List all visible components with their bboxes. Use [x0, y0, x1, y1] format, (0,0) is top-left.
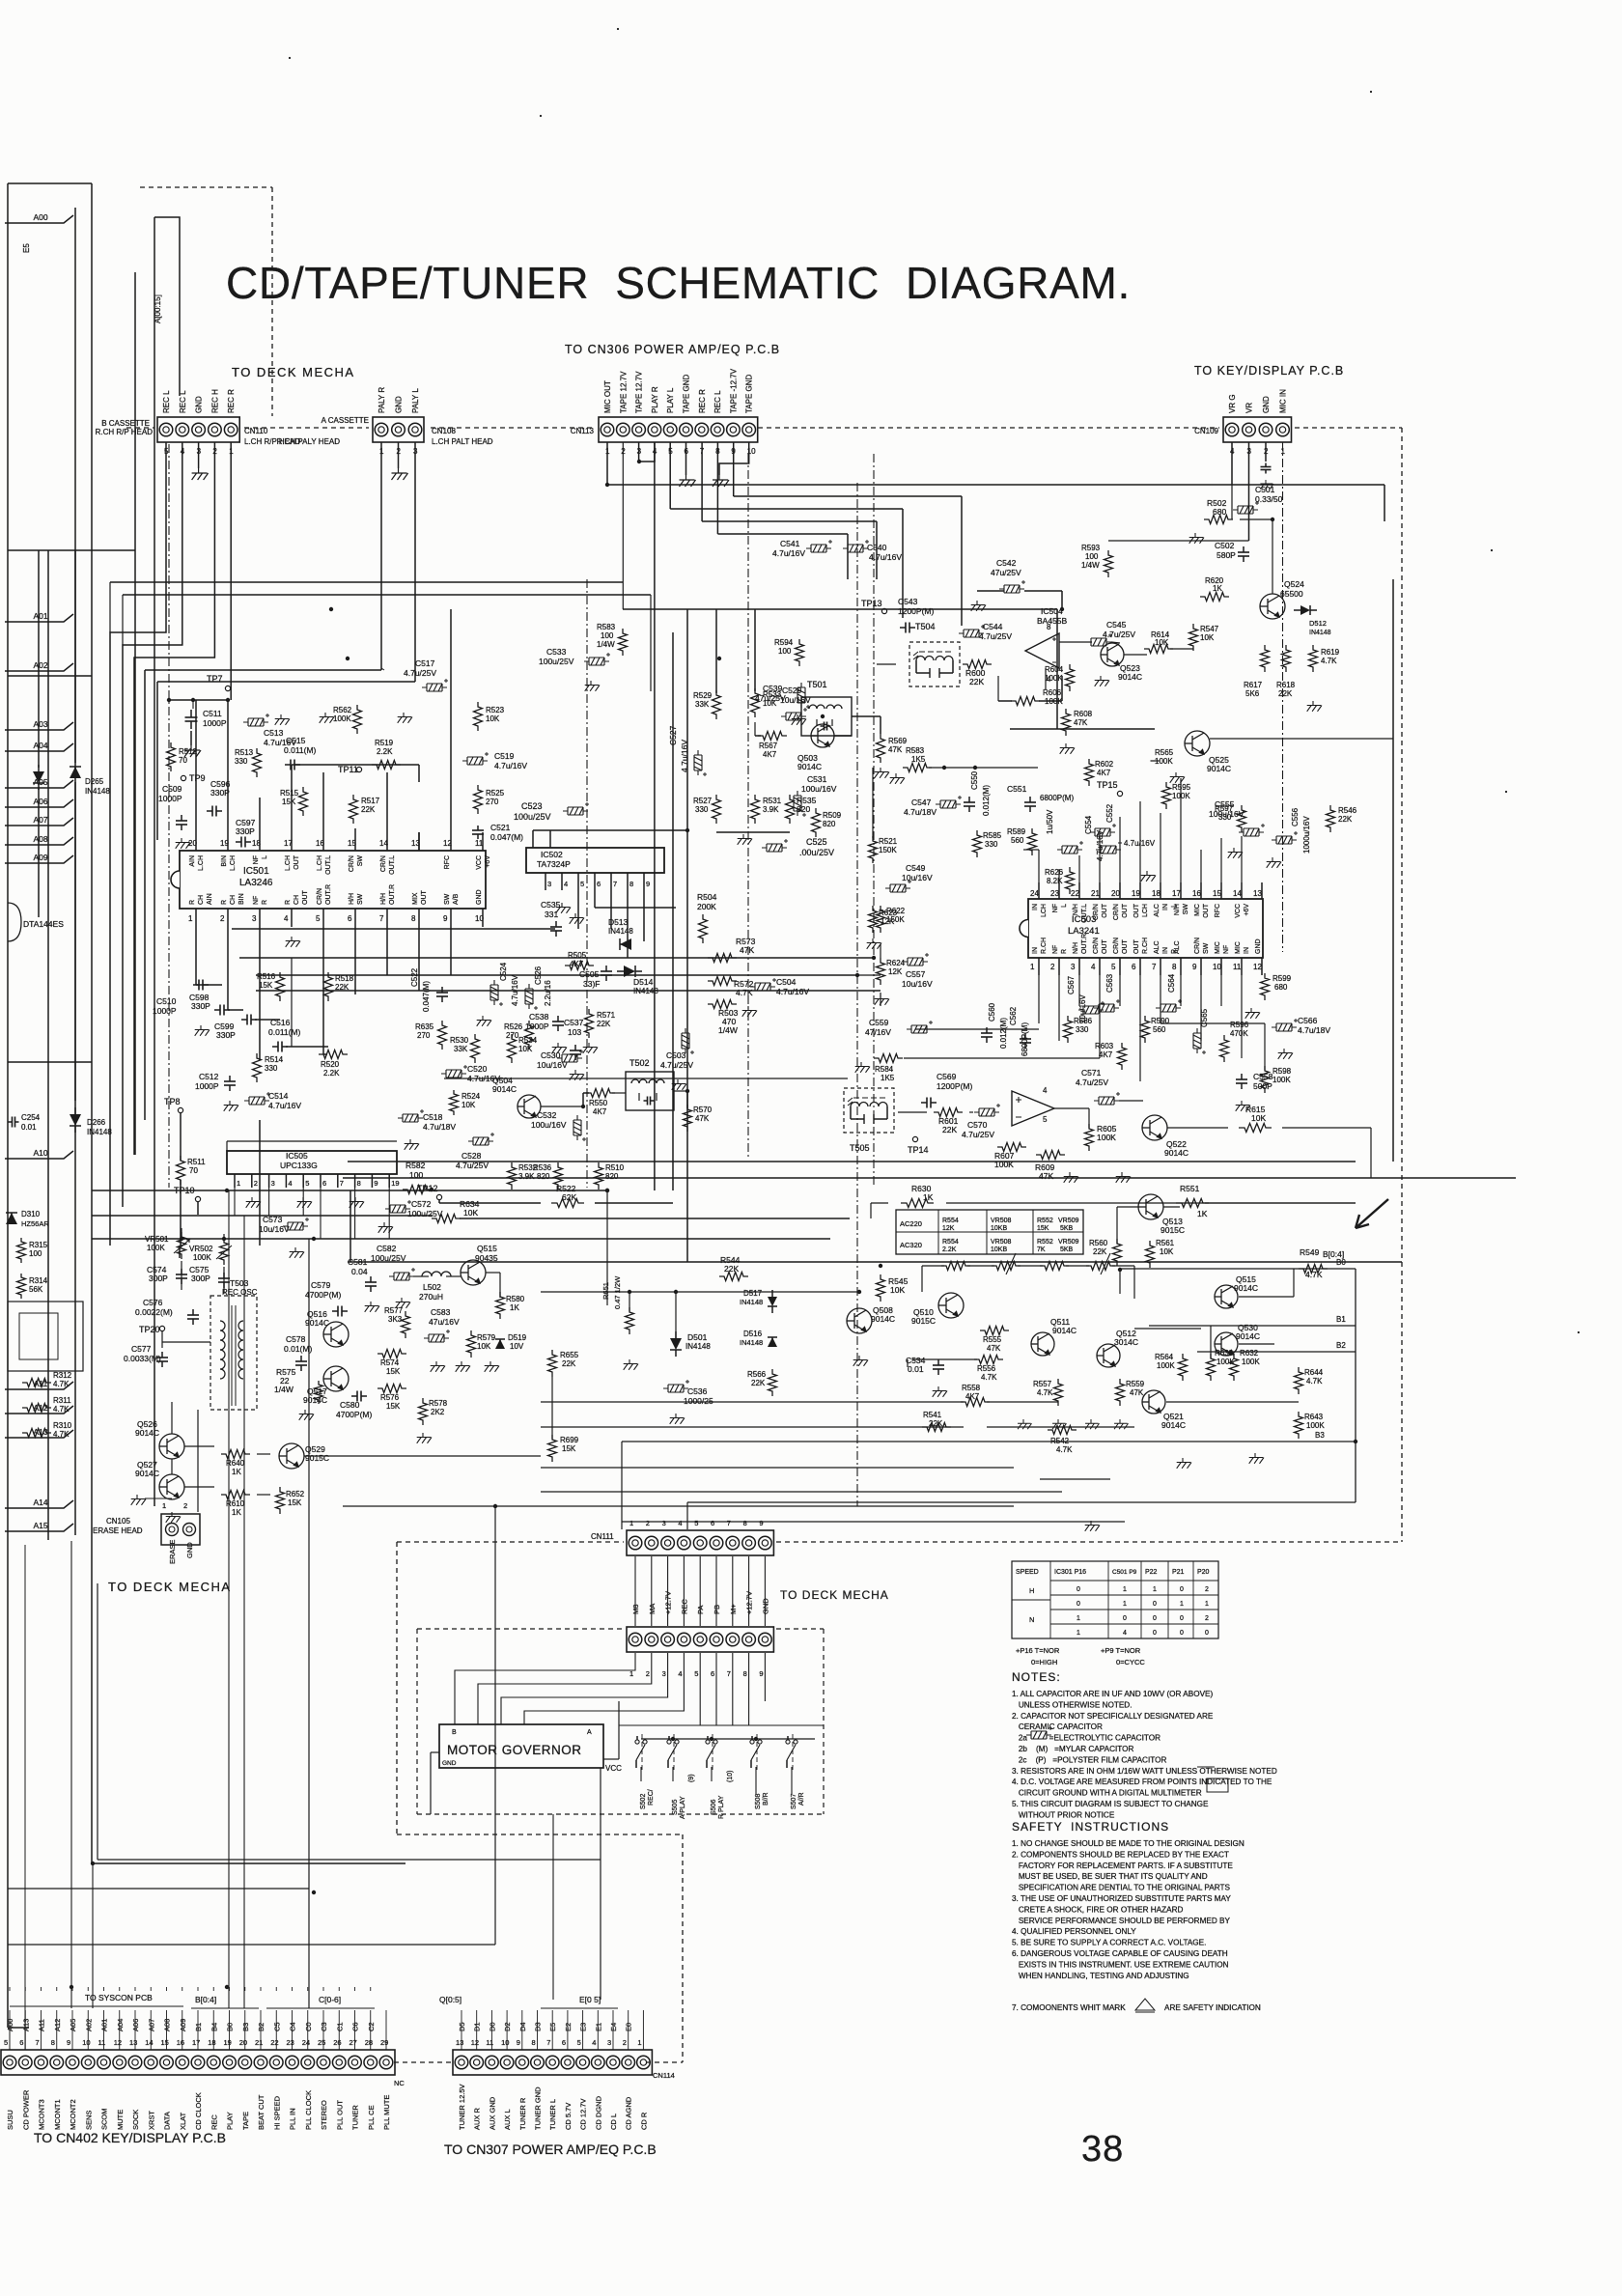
- svg-text:LCH: LCH: [1041, 904, 1048, 917]
- svg-text:27: 27: [350, 2038, 357, 2047]
- svg-text:C524: C524: [499, 962, 508, 981]
- svg-text:4K7: 4K7: [1097, 769, 1111, 777]
- svg-text:0: 0: [1153, 1630, 1157, 1637]
- svg-text:2: 2: [1205, 1586, 1209, 1593]
- ground R623: [867, 938, 881, 949]
- svg-text:6: 6: [711, 1669, 714, 1678]
- capacitor C550 0.012(M): [968, 797, 970, 802]
- svg-text:R314: R314: [29, 1276, 48, 1285]
- svg-text:SW: SW: [444, 893, 451, 905]
- svg-text:R552: R552: [1037, 1218, 1053, 1224]
- svg-text:9014C: 9014C: [492, 1084, 517, 1094]
- transistor Q530 9014C: [1215, 1332, 1238, 1356]
- svg-text:VR501: VR501: [145, 1235, 169, 1244]
- connector CN112: [627, 1627, 773, 1652]
- transistor Q503 9014C: [811, 724, 834, 747]
- svg-text:100K: 100K: [1155, 757, 1173, 766]
- svg-text:0.01: 0.01: [908, 1364, 924, 1374]
- wires into bottom connectors from above: [9, 2010, 11, 2050]
- svg-text:1. NO CHANGE SHOULD BE MADE TO: 1. NO CHANGE SHOULD BE MADE TO THE ORIGI…: [1012, 1839, 1244, 1848]
- svg-text:8: 8: [51, 2038, 55, 2047]
- ground R584: [855, 1062, 870, 1073]
- svg-text:CN114: CN114: [653, 2071, 675, 2080]
- svg-text:C5: C5: [272, 2022, 281, 2031]
- IC503 LA3241: [1028, 899, 1263, 958]
- svg-text:VCC: VCC: [476, 855, 483, 870]
- resistor R599 680: [1261, 973, 1270, 1000]
- ground C518: [405, 1139, 419, 1150]
- ground C558: [1236, 1101, 1250, 1111]
- svg-text:19: 19: [224, 2038, 232, 2047]
- rail above switches: [641, 1738, 815, 1740]
- svg-text:9: 9: [759, 1519, 763, 1527]
- IC503 pin 15: [1220, 882, 1222, 899]
- svg-text:R529: R529: [693, 691, 713, 700]
- transistor Q527 9014C: [159, 1474, 184, 1499]
- svg-text:1K: 1K: [510, 1303, 519, 1312]
- svg-text:L.CH: L.CH: [198, 855, 205, 871]
- svg-text:S507: S507: [791, 1794, 797, 1809]
- resistor R578 2K2: [419, 1398, 428, 1425]
- resistor R564 100K: [1179, 1354, 1188, 1381]
- svg-text:4.7u/16V: 4.7u/16V: [268, 1101, 301, 1110]
- capacitor C538 1000P: [557, 1016, 559, 1022]
- svg-text:5KB: 5KB: [1060, 1246, 1074, 1253]
- svg-text:OUT: OUT: [1133, 903, 1140, 918]
- IC501 pin 16: [322, 832, 324, 851]
- resistor R604 100K: [1066, 664, 1075, 691]
- resistor R566 22K: [769, 1369, 777, 1396]
- svg-text:16: 16: [1192, 889, 1201, 898]
- svg-text:47K: 47K: [740, 945, 754, 955]
- ground C537: [570, 1070, 584, 1080]
- svg-text:A10: A10: [33, 1148, 47, 1158]
- transformer T504: [909, 642, 960, 686]
- node A03: [5, 722, 73, 730]
- node A10: [5, 1151, 73, 1159]
- svg-text:2: 2: [623, 2038, 627, 2047]
- rail y603 tape supply: [110, 581, 623, 583]
- IC501 pin 14: [386, 832, 388, 851]
- resistor R567 4K7: [758, 732, 787, 741]
- svg-text:C517: C517: [415, 658, 435, 668]
- IC501 pin 13: [418, 832, 420, 851]
- left block frame verticals: [144, 670, 146, 1120]
- svg-text:IN: IN: [1032, 947, 1039, 954]
- svg-text:9: 9: [67, 2038, 70, 2047]
- svg-text:D516: D516: [743, 1330, 763, 1338]
- svg-text:1: 1: [237, 1179, 240, 1188]
- svg-text:15K: 15K: [386, 1367, 401, 1376]
- wire T501 right: [852, 715, 881, 717]
- svg-text:8: 8: [532, 2038, 536, 2047]
- rail y694: [145, 669, 381, 671]
- ground C573: [290, 1247, 304, 1258]
- electrolytic C544 4.7u/25V: [959, 625, 985, 637]
- svg-text:3: 3: [607, 2038, 611, 2047]
- svg-text:20: 20: [239, 2038, 247, 2047]
- left bus top corner wires: [8, 182, 92, 184]
- svg-text:D514: D514: [633, 977, 654, 987]
- resistor R562 100K: [353, 705, 362, 734]
- svg-text:22: 22: [270, 2038, 278, 2047]
- svg-text:C562: C562: [1009, 1006, 1018, 1025]
- svg-text:VR509: VR509: [1058, 1218, 1079, 1224]
- svg-text:TO CN306 POWER AMP/EQ P.C.B: TO CN306 POWER AMP/EQ P.C.B: [565, 343, 780, 356]
- svg-text:4.7u/18V: 4.7u/18V: [423, 1122, 456, 1132]
- svg-text:S506: S506: [711, 1800, 717, 1815]
- svg-text:8: 8: [629, 880, 633, 888]
- svg-text:C503: C503: [666, 1050, 686, 1060]
- svg-text:150K: 150K: [879, 846, 897, 854]
- ground TP15 rail: [1141, 871, 1156, 882]
- ground C581: [365, 1302, 379, 1312]
- IC503 pin 2: [1058, 958, 1060, 975]
- electrolytic C570 4.7u/25V: [974, 1104, 1000, 1116]
- svg-text:150K: 150K: [886, 915, 905, 924]
- svg-text:47/16V: 47/16V: [865, 1027, 891, 1037]
- wire pin14 to R525: [418, 832, 420, 851]
- resistor R542 4.7K: [1048, 1426, 1077, 1435]
- sub box left: [8, 1302, 83, 1371]
- node A08: [5, 837, 73, 845]
- svg-text:R583: R583: [597, 623, 616, 631]
- resistor R544 22K: [719, 1273, 748, 1281]
- test point TP11: [356, 767, 361, 771]
- svg-text:MOTOR GOVERNOR: MOTOR GOVERNOR: [447, 1743, 582, 1757]
- electrolytic C540 4.7u/16V: [843, 540, 869, 552]
- capacitor C556 1000u/16V: [1272, 831, 1298, 844]
- svg-text:SW: SW: [1183, 904, 1189, 915]
- svg-text:CD 5.7V: CD 5.7V: [564, 2103, 573, 2130]
- svg-text:2: 2: [1050, 963, 1055, 971]
- svg-text:PLL MUTE: PLL MUTE: [382, 2095, 391, 2130]
- resistor R534 10K: [508, 1034, 517, 1063]
- switch S506 R PLAY: [706, 1740, 710, 1744]
- resistor R514 330: [253, 1053, 262, 1082]
- svg-text:15K: 15K: [562, 1444, 576, 1453]
- svg-text:C578: C578: [286, 1334, 306, 1344]
- resistor R601 22K: [934, 1108, 963, 1117]
- ground IC503 pin12: [1245, 1008, 1260, 1019]
- diode D513 IN4148: [620, 938, 631, 950]
- svg-text:TAPE: TAPE: [241, 2112, 250, 2130]
- svg-text:15: 15: [348, 839, 356, 848]
- svg-text:18: 18: [208, 2038, 215, 2047]
- svg-text:11: 11: [1233, 963, 1242, 971]
- svg-text:CD DGND: CD DGND: [594, 2095, 602, 2130]
- svg-text:R523: R523: [486, 706, 505, 714]
- wire Q525 to right edge: [1210, 738, 1393, 740]
- svg-text:R602: R602: [1095, 760, 1114, 769]
- ground C512: [224, 1101, 238, 1111]
- svg-text:GND: GND: [1262, 396, 1271, 413]
- svg-text:4: 4: [678, 1669, 682, 1678]
- svg-text:4.7u/16V: 4.7u/16V: [1124, 839, 1156, 848]
- svg-text:33K: 33K: [695, 700, 710, 709]
- svg-text:2K2: 2K2: [431, 1408, 445, 1416]
- resistor R520 2.2K: [319, 1050, 348, 1059]
- resistor R311 4.7K: [22, 1404, 51, 1413]
- test point TP12: [436, 1194, 441, 1199]
- svg-text:R505: R505: [568, 951, 587, 960]
- resistor R593 100 1/4W: [1105, 550, 1113, 577]
- node A11: [5, 1382, 73, 1389]
- svg-text:R699: R699: [560, 1436, 579, 1444]
- svg-text:C254: C254: [21, 1113, 41, 1122]
- wire B3: [622, 1441, 1356, 1442]
- svg-text:6800P(M): 6800P(M): [1040, 794, 1074, 802]
- svg-text:4.7K: 4.7K: [981, 1373, 997, 1382]
- IC503 pin 5: [1119, 958, 1121, 975]
- svg-text:D265: D265: [85, 777, 104, 786]
- IC502 top pins: [532, 830, 534, 848]
- svg-text:IN4148: IN4148: [87, 1128, 112, 1136]
- svg-text:D3: D3: [534, 2022, 543, 2031]
- grounds opamp2: [1064, 1172, 1078, 1183]
- svg-text:.00u/25V: .00u/25V: [799, 848, 834, 857]
- svg-text:TO CN307 POWER AMP/EQ P.C.B: TO CN307 POWER AMP/EQ P.C.B: [444, 2142, 657, 2157]
- svg-text:2.2K: 2.2K: [942, 1246, 957, 1253]
- svg-text:R617: R617: [1244, 681, 1263, 689]
- capacitor C551 6800P(M): [1029, 797, 1031, 802]
- svg-text:12: 12: [443, 839, 452, 848]
- connector CN402-side 25 pins: [1, 2050, 395, 2075]
- svg-text:R PLAY: R PLAY: [718, 1795, 725, 1819]
- svg-text:Q[0:5]: Q[0:5]: [439, 1995, 461, 2004]
- svg-text:8: 8: [1047, 623, 1051, 631]
- svg-text:PLL CE: PLL CE: [367, 2105, 376, 2130]
- svg-text:CR/N: CR/N: [1194, 938, 1201, 954]
- wire opamp feedback: [997, 676, 999, 701]
- svg-text:23: 23: [1050, 889, 1059, 898]
- wires mic amp: [877, 663, 896, 665]
- ground CN113 pin10: [719, 442, 749, 475]
- diode D516 IN4148: [768, 1337, 777, 1347]
- rail y1026 long: [256, 990, 881, 992]
- svg-text:6: 6: [348, 914, 352, 923]
- zener D310 HZ56AR: [6, 1213, 17, 1224]
- wires bias rows: [907, 1359, 909, 1367]
- svg-text:C533: C533: [546, 647, 567, 657]
- svg-text:10K: 10K: [518, 1045, 533, 1053]
- svg-text:P22: P22: [1145, 1569, 1158, 1576]
- resistor R509 820: [812, 808, 821, 837]
- svg-text:4.7u/25V: 4.7u/25V: [1103, 630, 1135, 639]
- svg-text:SAFETY INSTRUCTIONS: SAFETY INSTRUCTIONS: [1012, 1820, 1169, 1834]
- svg-text:47K: 47K: [695, 1114, 710, 1123]
- svg-text:B[0:4]: B[0:4]: [195, 1995, 216, 2004]
- svg-text:D1: D1: [473, 2022, 482, 2031]
- svg-text:3. THE USE OF UNAUTHORIZED SUB: 3. THE USE OF UNAUTHORIZED SUBSTITUTE PA…: [1012, 1894, 1231, 1903]
- svg-text:0: 0: [1180, 1630, 1184, 1637]
- svg-text:OUT.L: OUT.L: [325, 855, 332, 875]
- svg-text:6800P(M): 6800P(M): [1021, 1022, 1029, 1056]
- switch S507 A/R: [786, 1740, 790, 1744]
- svg-text:TP20: TP20: [139, 1325, 160, 1334]
- svg-text:DATA: DATA: [163, 2112, 172, 2130]
- rail y616 tape supply: [123, 594, 651, 596]
- svg-text:R549: R549: [1300, 1247, 1320, 1257]
- diode D517 IN4148: [768, 1297, 777, 1306]
- svg-text:100K: 100K: [333, 714, 351, 723]
- switch S505 A PLAY: [667, 1740, 671, 1744]
- test point TP9: [181, 775, 185, 780]
- svg-text:4.7u/16V: 4.7u/16V: [494, 761, 527, 770]
- svg-text:R552: R552: [1037, 1239, 1053, 1246]
- IC505 pin wires down: [234, 1188, 236, 1216]
- svg-text:PLAY L: PLAY L: [666, 387, 675, 413]
- capacitor C565 1.1/16: [1193, 1028, 1206, 1054]
- IC501 pin 17: [291, 832, 293, 851]
- resistor R596 470K: [1220, 1035, 1229, 1062]
- svg-text:R546: R546: [1338, 806, 1357, 815]
- inductor L502 270uH: [422, 1272, 451, 1276]
- svg-text:4.7u/16V: 4.7u/16V: [680, 740, 689, 772]
- svg-text:R565: R565: [1155, 748, 1174, 757]
- svg-text:R584: R584: [875, 1065, 894, 1074]
- ground C533: [585, 681, 600, 691]
- svg-text:P21: P21: [1172, 1569, 1185, 1576]
- svg-text:LA3246: LA3246: [239, 878, 273, 888]
- ground C509: [176, 838, 190, 849]
- svg-text:A14: A14: [33, 1498, 47, 1507]
- ground under C517: [398, 713, 412, 723]
- svg-text:5: 5: [1111, 963, 1116, 971]
- IC505 top lead: [227, 1140, 397, 1142]
- svg-text:2. COMPONENTS SHOULD BE REPLAC: 2. COMPONENTS SHOULD BE REPLACED BY THE …: [1012, 1850, 1229, 1859]
- IC505 UPC133G: [227, 1151, 397, 1174]
- svg-text:3K3: 3K3: [388, 1315, 403, 1324]
- ground near C513: [275, 714, 290, 725]
- svg-text:100K: 100K: [1097, 1133, 1116, 1142]
- svg-text:A11: A11: [38, 2019, 46, 2031]
- electrolytic C545 4.7u/25V: [1086, 633, 1112, 646]
- svg-text:R: R: [221, 900, 228, 905]
- svg-text:RFC: RFC: [1215, 904, 1221, 917]
- IC505 pin 9: [371, 1174, 373, 1188]
- IC503 pin 17: [1180, 882, 1182, 899]
- svg-text:VR508: VR508: [991, 1218, 1012, 1224]
- svg-text:R596: R596: [1230, 1021, 1249, 1029]
- svg-text:TAPE -12.7V: TAPE -12.7V: [729, 368, 738, 413]
- svg-text:28: 28: [365, 2038, 373, 2047]
- resistor R600 22K: [963, 660, 992, 669]
- capacitor C548 1u/50V: [1057, 841, 1083, 854]
- svg-text:R590: R590: [1151, 1017, 1170, 1025]
- wires Q526/Q527: [184, 1445, 214, 1447]
- svg-text:C572: C572: [411, 1199, 432, 1209]
- rail y962: [232, 928, 555, 930]
- transistor Q516 9014C: [323, 1322, 349, 1347]
- svg-text:C505: C505: [579, 969, 600, 979]
- wire TP8 down: [180, 1113, 182, 1161]
- test point TP7: [225, 686, 230, 690]
- IC505 pin 7: [337, 1174, 339, 1188]
- svg-text:C566: C566: [1298, 1016, 1318, 1025]
- svg-text:2b (M) =MYLAR CAPACITOR: 2b (M) =MYLAR CAPACITOR: [1012, 1745, 1133, 1753]
- svg-text:FACTORY FOR REPLACEMENT PARTS.: FACTORY FOR REPLACEMENT PARTS. IF A SUBS…: [1012, 1862, 1233, 1870]
- svg-text:R531: R531: [763, 797, 782, 805]
- svg-text:R578: R578: [429, 1399, 448, 1408]
- svg-text:R315: R315: [29, 1241, 48, 1249]
- svg-text:CD CLOCK: CD CLOCK: [194, 2092, 203, 2130]
- svg-text:R: R: [1061, 949, 1068, 954]
- svg-text:IN: IN: [1244, 947, 1250, 954]
- wire return y1576: [622, 1521, 1125, 1523]
- svg-text:REC H: REC H: [210, 389, 219, 413]
- resistor R655 22K: [548, 1350, 557, 1377]
- bottom rails into connectors: [308, 1239, 310, 2008]
- electrolytic C524 4.7u/16V: [490, 980, 503, 1006]
- svg-text:Q524: Q524: [1284, 579, 1304, 589]
- resistors R617 R618 pair: [1261, 645, 1270, 672]
- svg-text:70: 70: [189, 1166, 198, 1175]
- svg-text:R619: R619: [1321, 648, 1340, 657]
- svg-text:T504: T504: [915, 622, 936, 631]
- IC501 pin 12: [450, 832, 452, 851]
- svg-text:4.7K: 4.7K: [1056, 1445, 1073, 1454]
- node A05: [5, 780, 73, 788]
- svg-text:6. DANGEROUS VOLTAGE CAPABLE O: 6. DANGEROUS VOLTAGE CAPABLE OF CAUSING …: [1012, 1949, 1228, 1958]
- IC503 pin 20: [1119, 882, 1121, 899]
- svg-text:AUX GND: AUX GND: [488, 2096, 496, 2130]
- svg-text:C510: C510: [156, 996, 177, 1006]
- svg-text:4: 4: [1091, 963, 1096, 971]
- svg-text:E5: E5: [22, 243, 31, 253]
- svg-text:R547: R547: [1200, 625, 1219, 633]
- resistor R608 47K: [1062, 709, 1071, 736]
- svg-text:BIN: BIN: [238, 893, 245, 905]
- svg-text:C509: C509: [162, 784, 182, 794]
- svg-text:C535: C535: [541, 900, 561, 910]
- svg-text:CD AGND: CD AGND: [625, 2096, 633, 2130]
- svg-text:AC320: AC320: [900, 1241, 922, 1249]
- svg-text:1/4W: 1/4W: [1081, 561, 1100, 570]
- IC502 pin 4: [561, 873, 563, 890]
- resistor R547 10K: [1189, 624, 1198, 651]
- svg-text:7: 7: [727, 1669, 731, 1678]
- svg-text:VCC: VCC: [605, 1764, 622, 1773]
- svg-text:3: 3: [547, 880, 551, 888]
- svg-text:270: 270: [506, 1031, 519, 1040]
- svg-text:9014C: 9014C: [797, 762, 822, 771]
- svg-text:47K: 47K: [1130, 1388, 1144, 1397]
- svg-text:1000P: 1000P: [203, 718, 227, 728]
- svg-text:CERAMIC CAPACITOR: CERAMIC CAPACITOR: [1012, 1722, 1103, 1731]
- transistor Q508 9014C: [847, 1308, 872, 1333]
- svg-text:1. ALL CAPACITOR ARE IN UF AND: 1. ALL CAPACITOR ARE IN UF AND 10WV (OR …: [1012, 1690, 1214, 1698]
- svg-text:GND: GND: [1255, 938, 1262, 954]
- electrolytic C563 4.7u/18V: [1094, 999, 1120, 1012]
- resistor R541 22K: [922, 1423, 951, 1432]
- svg-text:0.012(M): 0.012(M): [982, 785, 991, 816]
- svg-text:CN113: CN113: [571, 427, 595, 435]
- svg-text:R524: R524: [461, 1092, 481, 1101]
- IC502 pin 9: [643, 873, 645, 890]
- IC505 pin 1: [234, 1174, 236, 1188]
- svg-text:R555: R555: [983, 1335, 1002, 1344]
- svg-text:IN: IN: [1162, 904, 1169, 910]
- wires Q513 group: [1163, 1206, 1180, 1208]
- electrolytic C519 4.7u/16V: [462, 752, 489, 765]
- svg-text:CR/N: CR/N: [1093, 938, 1100, 954]
- svg-text:8: 8: [1172, 963, 1177, 971]
- resistor R572 4.7K: [708, 977, 737, 986]
- svg-text:C[0-6]: C[0-6]: [319, 1995, 341, 2004]
- resistor R615 10K: [1239, 1124, 1272, 1133]
- svg-text:5: 5: [694, 1669, 698, 1678]
